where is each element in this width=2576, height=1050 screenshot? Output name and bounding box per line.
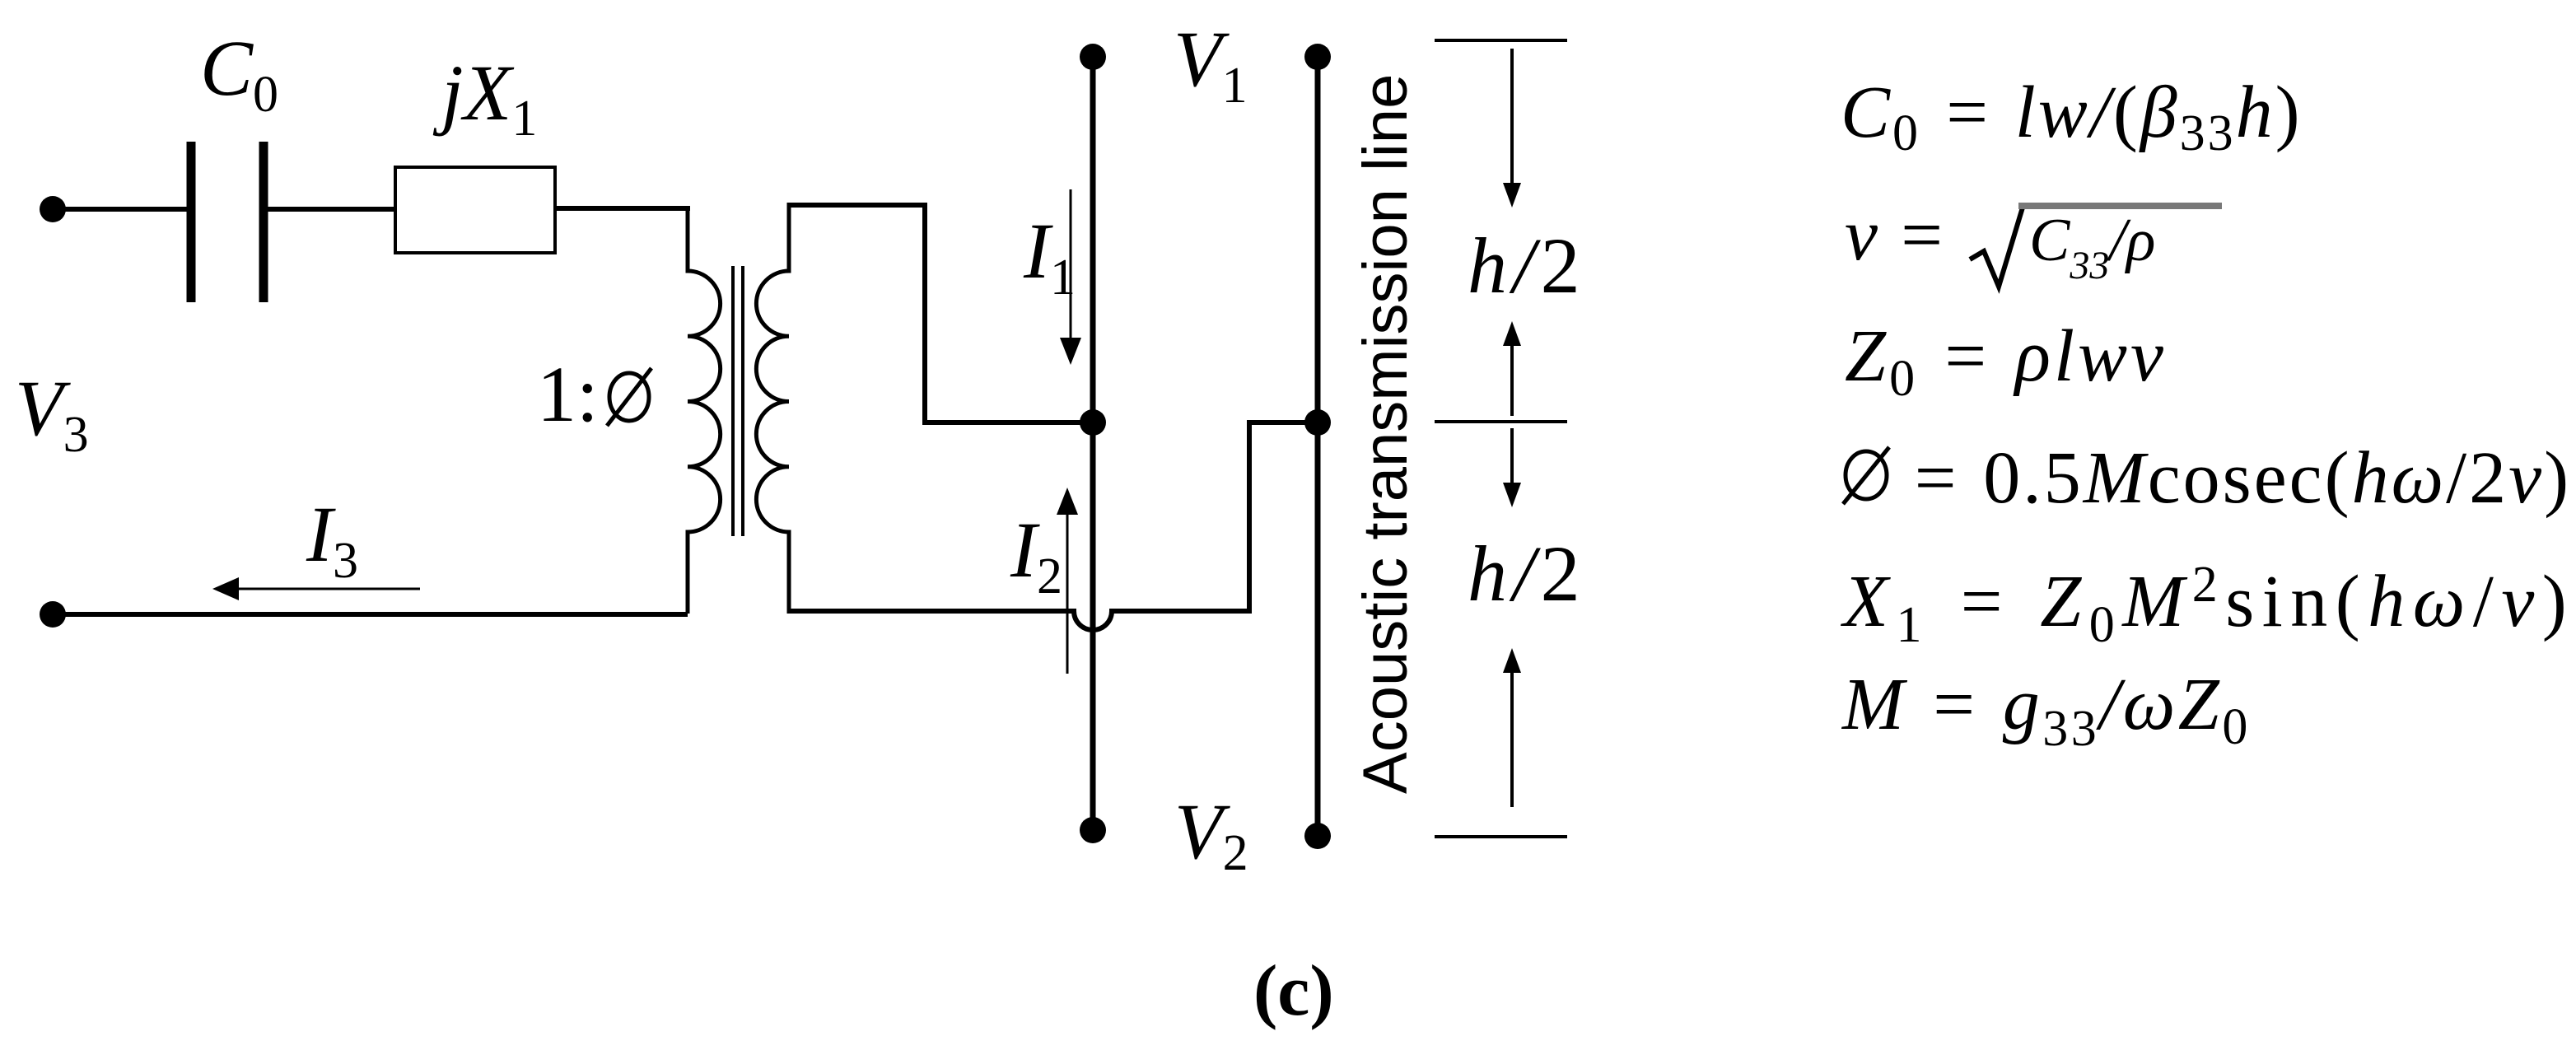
dimension arrow up to bottom line: [1510, 670, 1514, 807]
wire bottom-left from terminal to transformer primary: [53, 612, 688, 617]
dimension arrow down from top line: [1510, 49, 1514, 186]
dimension arrow up to middle line: [1510, 343, 1514, 416]
node top of right electrode: [1304, 44, 1331, 70]
current arrow I3: [229, 588, 420, 590]
svg-text:h/2: h/2: [1468, 530, 1586, 618]
current arrow I2: [1066, 511, 1069, 674]
equation phi: [1846, 451, 1887, 499]
wire C0 to jX1 box: [268, 207, 397, 212]
dimension line top: [1435, 39, 1567, 42]
node A junction left electrode: [1080, 409, 1106, 436]
svg-text:v =: v =: [1845, 194, 1946, 276]
wire secondary bottom with hop over electrode line: [789, 422, 1318, 630]
transformer T1 primary winding: [688, 206, 721, 614]
node V3 top terminal dot: [40, 196, 66, 222]
svg-text:h/2: h/2: [1468, 222, 1586, 310]
capacitor C0 right plate: [259, 142, 268, 302]
svg-text:(c): (c): [1253, 951, 1334, 1031]
current arrow I1: [1070, 189, 1072, 342]
svg-text:= 0.5Mcosec(hω/2v): = 0.5Mcosec(hω/2v): [1910, 437, 2571, 519]
dimension arrow down from middle line: [1510, 428, 1514, 486]
transformer T1 secondary winding: [756, 203, 789, 614]
electrode line right (acoustic port): [1315, 57, 1321, 836]
node bottom of right electrode: [1304, 823, 1331, 849]
node top of left electrode: [1080, 44, 1106, 70]
wire jX1 to transformer primary: [555, 206, 690, 211]
dimension line bottom: [1435, 835, 1567, 838]
electrode line V1-V2 left: [1090, 57, 1096, 830]
node V3 bottom terminal dot: [40, 601, 66, 628]
wire secondary top to node A: [789, 205, 1093, 422]
svg-text:1:: 1:: [537, 350, 599, 438]
reactance jX1 box: [395, 167, 555, 253]
svg-text:Acoustic transmission line: Acoustic transmission line: [1351, 74, 1421, 794]
dimension line middle: [1435, 420, 1567, 423]
wire top-left from terminal to C0: [53, 207, 187, 212]
node B junction right electrode: [1304, 409, 1331, 436]
capacitor C0 left plate: [187, 142, 196, 302]
node bottom of left electrode: [1080, 817, 1106, 843]
transformer T1 core: [731, 266, 735, 536]
